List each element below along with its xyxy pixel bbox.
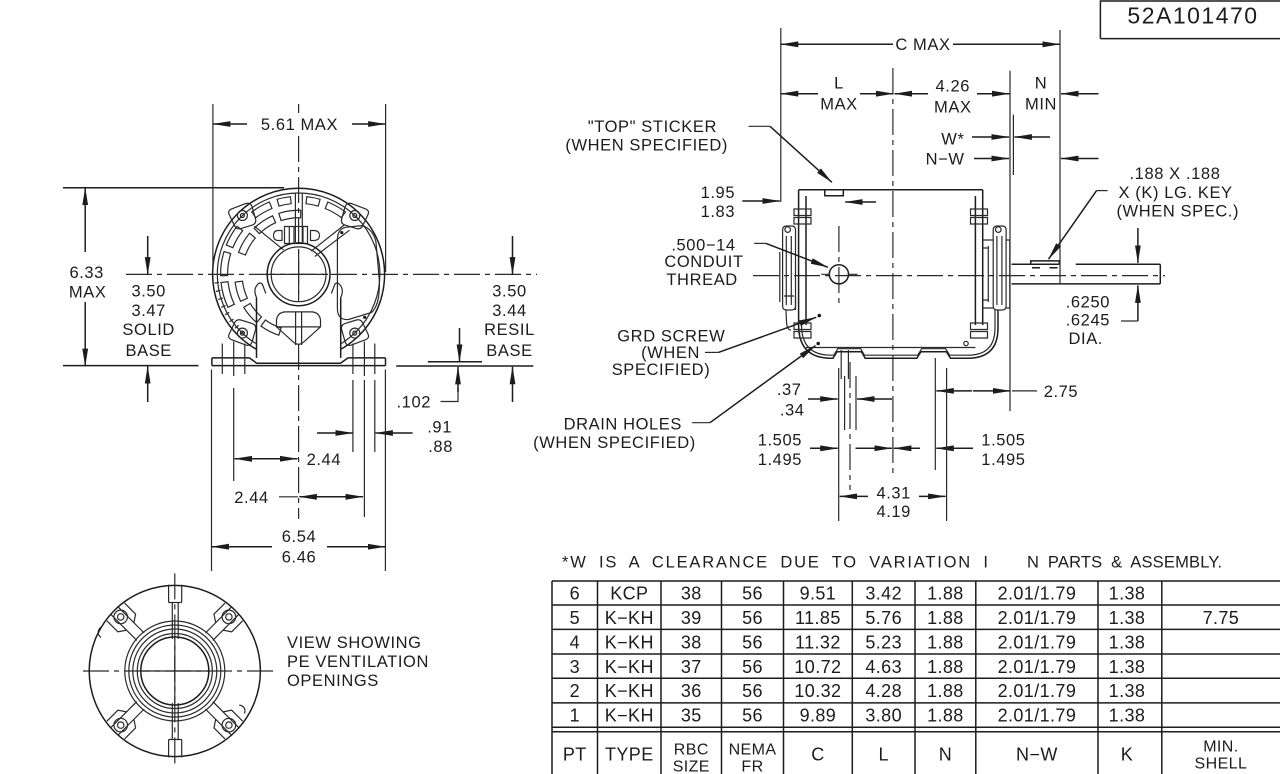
- svg-text:MAX: MAX: [934, 99, 972, 117]
- svg-text:.34: .34: [780, 401, 805, 419]
- svg-text:11.85: 11.85: [795, 608, 841, 628]
- svg-text:38: 38: [681, 632, 702, 652]
- dim 4.31 4.19: [840, 368, 947, 521]
- dim 2.44 upper: [235, 451, 342, 469]
- dim 4.26 MAX: [895, 78, 1010, 117]
- svg-text:.6245: .6245: [1066, 312, 1110, 330]
- extension lines below base left view: [212, 370, 386, 572]
- dim 1.505 1.495 right: [894, 431, 1026, 468]
- bore outer circle: [267, 243, 330, 306]
- vertical centerline front view: [298, 104, 300, 113]
- table horizontal lines: [552, 581, 1280, 732]
- svg-text:3.47: 3.47: [131, 302, 166, 320]
- svg-text:3.80: 3.80: [865, 706, 902, 726]
- screw pad upper-right: [341, 203, 368, 229]
- svg-text:38: 38: [681, 584, 702, 604]
- svg-text:N−W: N−W: [1016, 744, 1058, 764]
- seam clips right: [971, 209, 988, 338]
- dim 3.50 3.44 RESIL BASE: [484, 236, 535, 402]
- table vertical lines: [552, 581, 1162, 774]
- PE view horizontal centerline: [83, 670, 276, 672]
- svg-text:1.88: 1.88: [927, 657, 964, 677]
- svg-text:L: L: [834, 75, 844, 93]
- side view vertical centerline: [892, 68, 894, 478]
- svg-text:6.54: 6.54: [282, 528, 317, 546]
- seam clips left: [794, 209, 811, 338]
- callout conduit thread: [664, 237, 828, 289]
- svg-text:SOLID: SOLID: [122, 321, 175, 339]
- svg-text:1.38: 1.38: [1109, 632, 1146, 652]
- svg-text:N−W: N−W: [926, 151, 965, 169]
- svg-text:52A101470: 52A101470: [1127, 3, 1258, 29]
- PE ear strut 45: [205, 607, 238, 640]
- foot stud ticks right: [353, 342, 375, 377]
- svg-text:39: 39: [681, 608, 702, 628]
- table row 5: [570, 608, 1240, 628]
- PE ear strut 315: [205, 702, 238, 735]
- dim .102 leader: [396, 328, 459, 412]
- callout drain holes: [533, 346, 815, 452]
- dim 6.54 6.46: [212, 528, 386, 567]
- svg-text:2.44: 2.44: [234, 489, 269, 507]
- horizontal centerline front view: [126, 273, 537, 275]
- svg-text:4.19: 4.19: [876, 503, 911, 521]
- PE ring circles: [125, 621, 225, 721]
- shaft: [1012, 264, 1161, 284]
- svg-text:MIN.: MIN.: [1203, 739, 1238, 756]
- svg-text:1.38: 1.38: [1109, 706, 1146, 726]
- center dash below base: [298, 344, 300, 519]
- svg-text:4.28: 4.28: [865, 681, 902, 701]
- drain hole centerline: [849, 362, 851, 490]
- ground lines right (.102 gap): [396, 362, 533, 366]
- TOP sticker: [825, 190, 844, 196]
- svg-text:.188 X .188: .188 X .188: [1129, 165, 1220, 183]
- svg-text:DRAIN HOLES: DRAIN HOLES: [564, 416, 682, 434]
- PE view vertical centerline: [174, 573, 176, 768]
- svg-text:3: 3: [570, 657, 580, 677]
- vent band arcs inner ring: [235, 210, 301, 335]
- screw pad lower-right: [341, 320, 368, 346]
- svg-text:L: L: [878, 744, 888, 764]
- table row 3: [570, 657, 1146, 677]
- svg-text:2.01/1.79: 2.01/1.79: [998, 608, 1077, 628]
- svg-text:1.495: 1.495: [981, 451, 1025, 469]
- svg-text:CONDUIT: CONDUIT: [664, 253, 743, 271]
- svg-text:9.89: 9.89: [800, 706, 837, 726]
- svg-text:3.50: 3.50: [492, 283, 527, 301]
- svg-text:(WHEN: (WHEN: [641, 344, 700, 362]
- svg-text:37: 37: [681, 657, 702, 677]
- grd screw dot: [818, 314, 822, 318]
- screw pad lower-left: [229, 320, 256, 346]
- svg-text:K−KH: K−KH: [605, 632, 654, 652]
- svg-text:(WHEN SPECIFIED): (WHEN SPECIFIED): [533, 434, 696, 452]
- stator inner line: [806, 347, 975, 349]
- svg-text:2.01/1.79: 2.01/1.79: [998, 632, 1077, 652]
- svg-text:56: 56: [742, 632, 763, 652]
- bottom cone: [277, 312, 321, 345]
- motor inner rim circle: [217, 193, 380, 356]
- rim hatch lower-left: [215, 282, 245, 334]
- svg-text:56: 56: [742, 681, 763, 701]
- bore inner circle: [271, 247, 326, 302]
- svg-text:N: N: [1035, 75, 1048, 93]
- dia dimension: [1066, 228, 1138, 348]
- shaft key: [1031, 261, 1060, 268]
- svg-text:1.38: 1.38: [1109, 657, 1146, 677]
- svg-text:PT: PT: [563, 744, 587, 764]
- bore crosshair: [269, 250, 328, 302]
- svg-text:4: 4: [570, 632, 580, 652]
- svg-text:4.31: 4.31: [876, 484, 911, 502]
- dim 5.61 MAX: [213, 104, 386, 272]
- svg-text:BASE: BASE: [486, 342, 532, 360]
- dim W*: [941, 71, 1050, 411]
- svg-text:6: 6: [570, 584, 580, 604]
- svg-text:10.32: 10.32: [794, 681, 841, 701]
- svg-text:C: C: [811, 744, 824, 764]
- svg-text:2.01/1.79: 2.01/1.79: [998, 657, 1077, 677]
- table row 4: [570, 632, 1146, 652]
- svg-text:*W IS A CLEARANCE DUE TO VARIA: *W IS A CLEARANCE DUE TO VARIATION I: [562, 554, 990, 572]
- table header row: [563, 739, 1247, 774]
- PE outer circle: [89, 585, 260, 756]
- svg-text:5.23: 5.23: [865, 632, 902, 652]
- svg-text:SPECIFIED): SPECIFIED): [612, 361, 711, 379]
- conduit hole: [821, 265, 857, 284]
- svg-text:4.63: 4.63: [865, 657, 902, 677]
- PE ear strut 135: [111, 607, 144, 640]
- svg-text:2.01/1.79: 2.01/1.79: [998, 706, 1077, 726]
- svg-text:VIEW SHOWING: VIEW SHOWING: [287, 634, 422, 652]
- svg-text:56: 56: [742, 657, 763, 677]
- svg-text:7.75: 7.75: [1203, 608, 1240, 628]
- screw pad upper-left: [229, 203, 256, 229]
- svg-text:SIZE: SIZE: [673, 759, 710, 774]
- dim N-W: [926, 151, 1099, 169]
- svg-text:OPENINGS: OPENINGS: [287, 672, 379, 690]
- bearing hub steps: [983, 240, 1010, 308]
- svg-text:THREAD: THREAD: [666, 271, 737, 289]
- svg-text:1.38: 1.38: [1109, 584, 1146, 604]
- svg-text:DIA.: DIA.: [1069, 330, 1104, 348]
- pedestal mask: [257, 297, 342, 362]
- svg-text:.6250: .6250: [1066, 293, 1110, 311]
- svg-text:NEMA: NEMA: [729, 742, 777, 759]
- ground line left: [63, 365, 199, 367]
- svg-text:36: 36: [681, 681, 702, 701]
- PE left rim notch: [98, 627, 101, 637]
- svg-text:10.72: 10.72: [794, 657, 841, 677]
- svg-text:MIN: MIN: [1025, 96, 1057, 114]
- PE top tab: [169, 585, 182, 639]
- svg-text:1: 1: [570, 706, 580, 726]
- svg-text:(WHEN SPEC.): (WHEN SPEC.): [1116, 202, 1239, 220]
- dim N MIN: [1025, 75, 1099, 114]
- PE ear pad 315: [214, 710, 243, 739]
- svg-text:5.76: 5.76: [865, 608, 902, 628]
- shell bottom strap inner: [802, 310, 996, 355]
- svg-text:MAX: MAX: [820, 96, 858, 114]
- svg-text:2.44: 2.44: [307, 451, 342, 469]
- svg-text:X (K) LG. KEY: X (K) LG. KEY: [1119, 184, 1233, 202]
- PE lower-right rim notch: [239, 705, 245, 714]
- callout 1.95 1.83: [701, 184, 780, 221]
- callout TOP STICKER: [565, 118, 876, 202]
- PE bore circle: [141, 637, 209, 705]
- svg-text:1.505: 1.505: [758, 431, 802, 449]
- svg-text:RBC: RBC: [674, 742, 709, 759]
- svg-text:1.88: 1.88: [927, 681, 964, 701]
- svg-text:2.75: 2.75: [1044, 383, 1079, 401]
- svg-text:3.44: 3.44: [492, 302, 527, 320]
- dim .37 .34: [777, 368, 892, 521]
- svg-text:1.88: 1.88: [927, 706, 964, 726]
- svg-text:56: 56: [742, 608, 763, 628]
- PE ear pad 225: [107, 710, 136, 739]
- right through-bolt clamp: [983, 226, 1006, 310]
- drain slot lines in base: [841, 350, 848, 379]
- svg-text:1.88: 1.88: [927, 608, 964, 628]
- svg-text:6.33: 6.33: [69, 264, 104, 282]
- svg-text:3.50: 3.50: [131, 283, 166, 301]
- svg-text:FR: FR: [741, 759, 763, 774]
- dim 3.50 3.47 SOLID BASE: [122, 236, 175, 402]
- svg-text:MAX: MAX: [69, 283, 107, 301]
- svg-text:.500−14: .500−14: [671, 237, 735, 255]
- dim 6.33 MAX: [69, 188, 107, 366]
- dim 2.75: [935, 358, 1078, 470]
- PE bore crosshair: [142, 639, 208, 703]
- motor shell body: [799, 190, 983, 325]
- svg-text:GRD SCREW: GRD SCREW: [617, 327, 725, 345]
- dim 1.505 1.495 left: [758, 431, 892, 468]
- svg-text:56: 56: [742, 584, 763, 604]
- svg-text:2.01/1.79: 2.01/1.79: [998, 584, 1077, 604]
- svg-text:.88: .88: [428, 438, 453, 456]
- svg-text:35: 35: [681, 706, 702, 726]
- part number box: [1100, 1, 1280, 39]
- svg-text:6.46: 6.46: [282, 549, 317, 567]
- svg-text:1.505: 1.505: [981, 431, 1025, 449]
- svg-text:3.42: 3.42: [865, 584, 902, 604]
- svg-text:KCP: KCP: [610, 584, 648, 604]
- svg-text:N: N: [939, 744, 952, 764]
- svg-text:2: 2: [570, 681, 580, 701]
- vent band arcs outer ring: [221, 197, 346, 308]
- PE view caption: [287, 634, 429, 690]
- svg-text:W*: W*: [941, 131, 964, 149]
- svg-text:.37: .37: [777, 381, 802, 399]
- svg-text:1.38: 1.38: [1109, 681, 1146, 701]
- svg-text:K−KH: K−KH: [605, 657, 654, 677]
- conduit vertical centerline: [838, 226, 840, 307]
- svg-text:4.26: 4.26: [936, 78, 971, 96]
- motor outer circle: [213, 188, 385, 360]
- svg-text:.91: .91: [427, 419, 452, 437]
- svg-text:9.51: 9.51: [800, 584, 837, 604]
- foot stud ticks left: [222, 342, 245, 377]
- svg-text:PE VENTILATION: PE VENTILATION: [287, 653, 429, 671]
- table row 1: [570, 706, 1146, 726]
- table row 6: [570, 584, 1146, 604]
- svg-text:1.83: 1.83: [701, 203, 736, 221]
- svg-text:1.88: 1.88: [927, 632, 964, 652]
- dim 2.44 lower: [234, 489, 363, 507]
- right blank panel: [337, 226, 379, 320]
- svg-text:1.495: 1.495: [758, 451, 802, 469]
- top tangent line: [63, 187, 284, 189]
- svg-text:.102: .102: [396, 394, 431, 412]
- key callout: [1049, 165, 1240, 259]
- pedestal lug left: [255, 283, 266, 298]
- pedestal sides: [257, 298, 341, 358]
- svg-text:SHELL: SHELL: [1195, 756, 1248, 773]
- dim .91 .88: [317, 419, 453, 456]
- extension lines below base right cluster: [353, 380, 375, 517]
- svg-text:11.32: 11.32: [795, 632, 841, 652]
- svg-text:5.61 MAX: 5.61 MAX: [261, 116, 338, 134]
- svg-text:(WHEN SPECIFIED): (WHEN SPECIFIED): [565, 137, 728, 155]
- diagonal strut upper left: [254, 226, 283, 250]
- dim L MAX: [781, 75, 894, 114]
- part number box frame: [1100, 1, 1280, 39]
- panel dots: [340, 231, 343, 234]
- svg-text:BASE: BASE: [125, 342, 171, 360]
- feet and base: [212, 358, 386, 366]
- svg-text:TYPE: TYPE: [605, 744, 654, 764]
- svg-text:K−KH: K−KH: [605, 608, 654, 628]
- PE ear pad 135: [107, 603, 136, 632]
- svg-text:K−KH: K−KH: [605, 706, 654, 726]
- svg-text:1.38: 1.38: [1109, 608, 1146, 628]
- svg-text:1.88: 1.88: [927, 584, 964, 604]
- drain hole dot: [816, 342, 820, 346]
- svg-text:1.95: 1.95: [701, 184, 736, 202]
- diagonal strut upper right: [311, 225, 349, 257]
- svg-text:C MAX: C MAX: [895, 36, 950, 54]
- PE bottom tab: [169, 703, 182, 757]
- svg-text:2.01/1.79: 2.01/1.79: [998, 681, 1077, 701]
- svg-text:RESIL: RESIL: [484, 321, 535, 339]
- svg-text:N PARTS & ASSEMBLY.: N PARTS & ASSEMBLY.: [1027, 554, 1222, 572]
- table row 2: [570, 681, 1146, 701]
- pedestal lug right: [331, 283, 342, 298]
- shell bottom strap outer: [799, 310, 998, 358]
- right small hole: [964, 341, 968, 345]
- side view shaft horizontal centerline: [753, 275, 1165, 277]
- svg-text:K: K: [1121, 744, 1133, 764]
- svg-text:K−KH: K−KH: [605, 681, 654, 701]
- PE ear strut 225: [111, 702, 144, 735]
- callout grd screw: [612, 317, 817, 379]
- fan spokes top: [295, 193, 302, 242]
- svg-text:5: 5: [570, 608, 580, 628]
- top clamp detail: [274, 227, 320, 244]
- left through-bolt clamp: [780, 226, 796, 330]
- dim C MAX: [781, 28, 1060, 283]
- svg-text:56: 56: [742, 706, 763, 726]
- PE ear pad 45: [214, 603, 243, 632]
- svg-text:"TOP" STICKER: "TOP" STICKER: [588, 118, 717, 136]
